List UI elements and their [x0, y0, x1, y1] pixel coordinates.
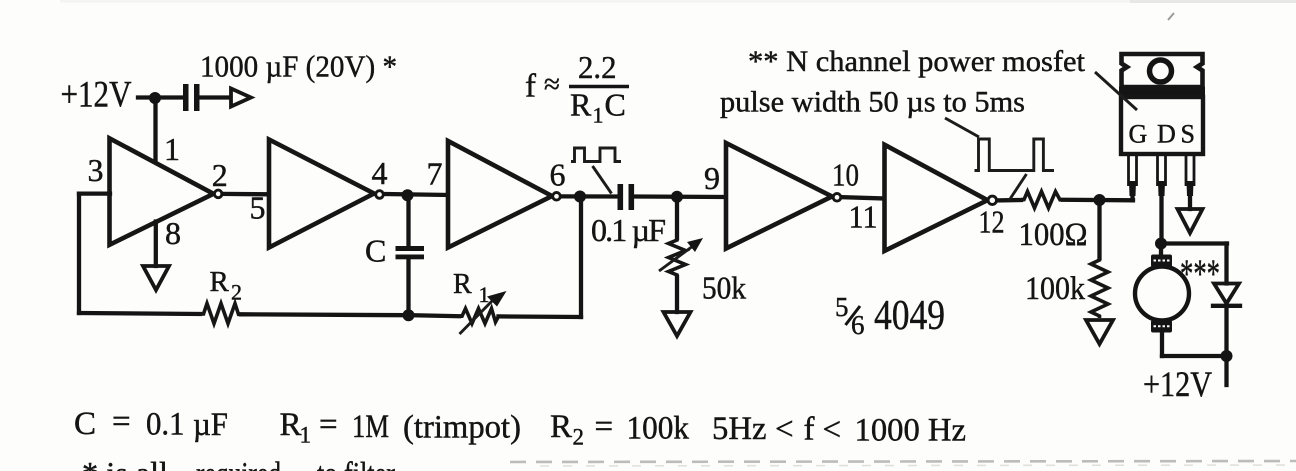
- leader pulse note: [945, 118, 979, 137]
- inverter U1e: [885, 145, 997, 251]
- svg-text:6: 6: [550, 157, 566, 193]
- R1 wiper arrow: [460, 299, 495, 334]
- svg-text:11: 11: [849, 199, 878, 235]
- svg-text:6: 6: [851, 310, 865, 340]
- wire motor top: [1159, 244, 1163, 257]
- svg-text:f: f: [804, 412, 815, 448]
- wire gate stub: [1130, 195, 1134, 200]
- svg-text:1M: 1M: [352, 409, 389, 445]
- svg-text:<: <: [823, 412, 842, 448]
- inverter U1b: [269, 140, 383, 248]
- svg-text:2: 2: [212, 157, 228, 193]
- wire source stub: [1188, 195, 1192, 209]
- svg-text:+12V: +12V: [61, 75, 132, 116]
- bottom parameters line: [74, 404, 966, 450]
- svg-text:≈: ≈: [544, 69, 560, 101]
- gate leg: [1129, 154, 1137, 196]
- wire +12V stub: [1224, 356, 1228, 385]
- svg-text:=: =: [319, 407, 338, 443]
- wire pin 8 drop: [154, 222, 158, 267]
- svg-text:1: 1: [300, 423, 312, 448]
- resistor R2: [200, 304, 241, 324]
- svg-text:10: 10: [832, 157, 859, 193]
- 50k wiper arrow: [659, 243, 697, 271]
- svg-text:C: C: [365, 233, 386, 269]
- svg-text:1: 1: [479, 282, 490, 307]
- wire feedback bottom right: [499, 314, 582, 319]
- tab outline: [1122, 54, 1203, 87]
- svg-text:** N channel power mosfet: ** N channel power mosfet: [748, 45, 1086, 78]
- svg-text:required: required: [196, 457, 281, 471]
- svg-text:2.2: 2.2: [578, 49, 617, 85]
- wire pin 1 drop: [153, 98, 157, 161]
- svg-text:9: 9: [704, 160, 720, 196]
- node pin 6 junction: [574, 191, 586, 203]
- ground pin 8: [143, 266, 169, 290]
- mounting hole: [1150, 60, 1172, 82]
- formula f ~ 2.2 / R1 C: [525, 49, 629, 128]
- capacitor C2 1000uF plates: [183, 84, 200, 111]
- wire feedback bottom middle: [241, 312, 409, 317]
- wire U1e out: [998, 198, 1022, 203]
- motor body: [1135, 267, 1189, 321]
- wire 100k drop: [1097, 200, 1101, 258]
- bottom brush: [1151, 320, 1172, 333]
- wire motor bottom to +12V node: [1162, 354, 1227, 358]
- svg-text:R: R: [570, 87, 592, 123]
- transistor Q1 N-channel power MOSFET (TO-220): [1119, 54, 1205, 196]
- svg-text:* is all: * is all: [82, 457, 168, 471]
- ground source: [1178, 209, 1203, 233]
- wire diode to +12V node: [1224, 306, 1228, 356]
- wire U1b out: [385, 194, 448, 195]
- capacitor C plates: [396, 246, 425, 259]
- wire C lower: [406, 259, 410, 315]
- wire feedback bottom left: [79, 313, 200, 314]
- node feedback / C junction: [403, 309, 415, 321]
- package band: [1119, 87, 1205, 97]
- source leg: [1186, 154, 1194, 196]
- svg-text:=: =: [595, 409, 614, 445]
- wire riser to pin6 node: [579, 197, 583, 318]
- drain leg: [1158, 154, 1166, 196]
- node drain junction: [1155, 238, 1167, 250]
- wire feedback left vertical: [77, 194, 81, 313]
- svg-text:<: <: [775, 412, 794, 448]
- svg-text:4049: 4049: [874, 293, 945, 339]
- top brush: [1151, 255, 1172, 268]
- svg-text:4: 4: [372, 155, 388, 191]
- wire cap to node 9: [634, 194, 726, 199]
- svg-text:f: f: [525, 69, 536, 105]
- svg-text:0.1 µF: 0.1 µF: [591, 212, 666, 248]
- resistor 100R: [1021, 192, 1063, 209]
- svg-text:0.1: 0.1: [146, 407, 185, 443]
- svg-text:100Ω: 100Ω: [1019, 217, 1088, 253]
- svg-text:µF: µF: [193, 407, 228, 443]
- wire U1d out to U1e: [842, 197, 885, 198]
- inverter U1d: [726, 143, 841, 249]
- svg-text:=: =: [112, 404, 131, 440]
- svg-text:2: 2: [573, 425, 585, 450]
- motor M1: [1135, 244, 1189, 357]
- svg-text:8: 8: [165, 215, 181, 251]
- leader squarewave: [593, 166, 612, 194]
- svg-text:(trimpot): (trimpot): [403, 410, 521, 446]
- wire C drop: [406, 195, 410, 246]
- svg-text:100k: 100k: [627, 411, 690, 447]
- svg-text:5Hz: 5Hz: [712, 411, 767, 447]
- pulse waveform symbol: [975, 139, 1055, 171]
- capacitor 0.1uF plates: [618, 184, 635, 210]
- svg-text:2: 2: [231, 280, 242, 305]
- ground 100k: [1086, 320, 1113, 344]
- svg-text:1000 Hz: 1000 Hz: [855, 413, 967, 449]
- svg-text:R: R: [453, 269, 472, 300]
- svg-text:C: C: [605, 87, 626, 123]
- svg-text:7: 7: [427, 156, 443, 192]
- package body: [1121, 97, 1203, 154]
- leader mosfet note: [1095, 72, 1137, 110]
- wire U1c out: [562, 194, 617, 198]
- node pin4/C junction: [402, 189, 414, 201]
- wire 100R to gate node: [1063, 198, 1133, 203]
- node gate junction: [1094, 194, 1106, 206]
- svg-text:D: D: [1157, 120, 1176, 149]
- svg-text:5: 5: [835, 292, 849, 322]
- arrow off-page supply: [231, 89, 251, 107]
- wire drain to diode branch: [1161, 241, 1227, 245]
- svg-text:50k: 50k: [702, 270, 746, 306]
- node supply junction: [149, 92, 161, 104]
- diode D1: [1213, 284, 1240, 306]
- svg-text:12: 12: [979, 204, 1005, 240]
- inverter U1a: [110, 138, 223, 245]
- wire supply to node: [138, 95, 183, 99]
- resistor VR 50k: [669, 238, 686, 277]
- svg-text:S: S: [1181, 120, 1195, 149]
- wire motor bottom: [1160, 332, 1164, 356]
- svg-text:1: 1: [593, 103, 604, 128]
- inverter U1c: [448, 141, 560, 248]
- wire diode top: [1224, 244, 1228, 284]
- leader pulse to node 12: [1009, 174, 1027, 201]
- svg-text:R: R: [550, 409, 572, 445]
- svg-text:R: R: [210, 266, 230, 298]
- wire feedback to R1: [409, 315, 460, 316]
- svg-text:G: G: [1129, 120, 1148, 149]
- ground 50k: [664, 312, 691, 336]
- resistor 100k: [1091, 258, 1108, 318]
- label 5/6 4049: [835, 292, 945, 340]
- wire U1a out to U1b: [223, 192, 270, 197]
- node +12V bottom junction: [1221, 350, 1233, 362]
- svg-text:pulse width 50 µs to 5ms: pulse width 50 µs to 5ms: [720, 86, 1025, 119]
- svg-text:3: 3: [88, 152, 104, 188]
- svg-text:+12V: +12V: [1143, 364, 1212, 404]
- resistor R1 (trimpot): [459, 309, 499, 324]
- svg-text:1000 µF (20V) *: 1000 µF (20V) *: [200, 49, 397, 84]
- svg-text:1: 1: [164, 131, 180, 167]
- svg-text:to filter: to filter: [317, 457, 395, 471]
- wire input pin 3: [79, 191, 110, 195]
- svg-text:***: ***: [1180, 251, 1220, 296]
- wire 50k drop: [675, 197, 679, 238]
- svg-text:100k: 100k: [1025, 271, 1085, 307]
- wire 50k to ground: [675, 277, 679, 312]
- wire drain drop: [1159, 195, 1163, 244]
- svg-text:R: R: [280, 407, 302, 443]
- node 9 junction: [671, 191, 683, 203]
- svg-text:C: C: [74, 406, 96, 442]
- squarewave symbol: [571, 148, 621, 162]
- wire cap to arrow: [199, 95, 230, 99]
